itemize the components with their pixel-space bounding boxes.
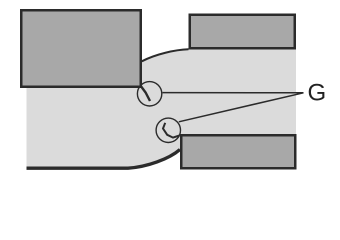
upper-left plate <box>21 10 141 87</box>
magnifier circle 2 <box>156 118 180 142</box>
lower-right plate <box>181 135 295 168</box>
magnifier circle 1 <box>137 82 161 106</box>
crack/gap mark 2 <box>163 123 180 138</box>
blob bottom edge stroke <box>27 150 181 169</box>
blob top edge stroke <box>142 49 189 61</box>
svg-text:G: G <box>308 80 327 107</box>
squeezed interlayer material (light gray blob) <box>27 49 297 168</box>
leader line from circle 2 to G <box>179 93 304 122</box>
leader line from circle 1 to G <box>163 92 304 94</box>
crack/gap mark 1 <box>141 86 150 101</box>
upper-right plate <box>190 15 295 49</box>
